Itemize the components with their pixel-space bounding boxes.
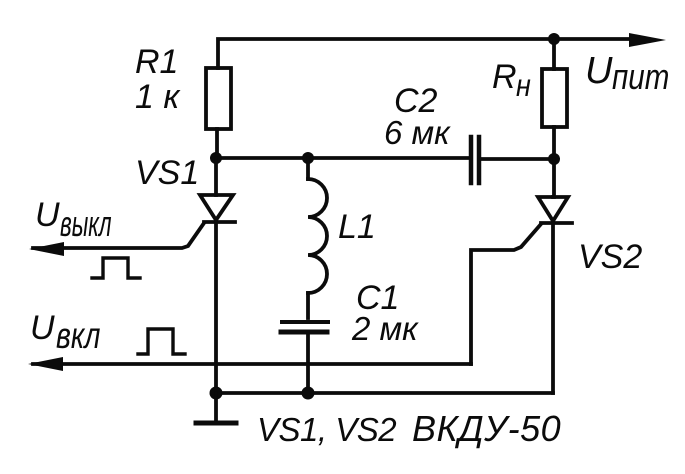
node junction middle rail / VS1 <box>210 152 222 164</box>
node junction bottom rail / C1 <box>302 387 315 400</box>
node junction bottom rail / VS1 cathode <box>210 387 223 400</box>
svg-text:U: U <box>35 196 60 234</box>
svg-text:R1: R1 <box>135 43 178 81</box>
svg-text:R: R <box>492 58 517 96</box>
svg-text:н: н <box>516 69 531 103</box>
wire VS2 gate to Uвкл <box>471 224 541 364</box>
wire arrow Uвыкл <box>29 242 64 256</box>
svg-text:VS2: VS2 <box>578 238 642 276</box>
pulse symbol Uвыкл <box>92 258 140 278</box>
svg-text:6 мк: 6 мк <box>384 114 451 151</box>
svg-text:L1: L1 <box>338 208 376 246</box>
ground <box>196 393 236 423</box>
wire Uвкл line <box>33 362 471 366</box>
svg-text:VS1: VS1 <box>135 154 199 192</box>
svg-text:пит: пит <box>612 57 669 98</box>
wire arrow Uпит output <box>629 33 666 47</box>
wire C1 bottom lead <box>306 334 310 393</box>
wire arrow Uвкл <box>28 357 63 371</box>
resistor R1 <box>206 68 231 129</box>
wire VS1 gate to Uвыкл <box>33 223 204 248</box>
node junction middle rail / L1 <box>302 152 314 164</box>
node junction top rail / Rн <box>548 33 560 45</box>
thyristor VS1 <box>200 158 235 393</box>
wire bottom rail <box>216 391 553 395</box>
wire Rн bottom lead <box>552 127 556 160</box>
svg-text:1 к: 1 к <box>135 78 181 116</box>
wire middle rail right <box>481 157 553 161</box>
capacitor C1 <box>282 320 328 324</box>
svg-text:ВКДУ-50: ВКДУ-50 <box>412 408 561 449</box>
svg-text:U: U <box>30 309 55 347</box>
capacitor C2 <box>469 137 474 183</box>
svg-text:VS1, VS2: VS1, VS2 <box>257 411 396 448</box>
svg-text:U: U <box>585 50 613 92</box>
node junction middle rail / VS2 <box>548 153 560 165</box>
svg-text:2 мк: 2 мк <box>351 310 419 347</box>
resistor Rн <box>552 39 556 69</box>
wire middle rail left <box>216 156 469 160</box>
pulse symbol Uвкл <box>138 329 185 354</box>
thyristor VS2 <box>538 159 572 393</box>
wire R1 bottom lead <box>215 129 219 160</box>
svg-text:выкл: выкл <box>60 205 112 245</box>
inductor L1 <box>308 158 327 318</box>
wire top supply rail <box>218 39 640 68</box>
svg-text:вкл: вкл <box>56 315 101 357</box>
